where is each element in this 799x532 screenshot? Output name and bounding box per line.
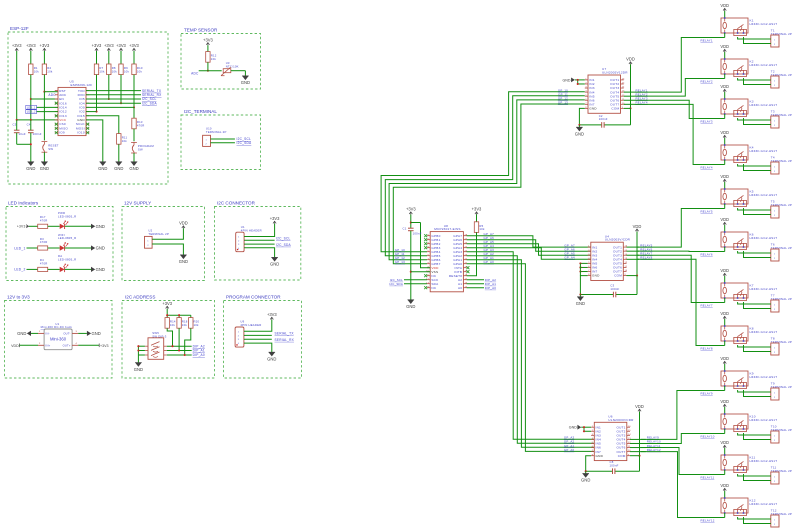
connector U2 TERMINAL 2P [145, 229, 170, 249]
svg-text:LED Indicators: LED Indicators [8, 201, 39, 206]
power +3V3 [162, 301, 172, 309]
svg-text:GND: GND [114, 166, 123, 171]
ground [40, 162, 49, 171]
power VDD K7 [720, 268, 729, 283]
svg-text:LED_2: LED_2 [27, 111, 36, 114]
power VDD K3 [720, 84, 729, 99]
wire GPB5 to U7 IN5 [385, 96, 585, 256]
svg-text:GND: GND [270, 262, 279, 267]
svg-text:HF46F-G/12-HS1T: HF46F-G/12-HS1T [750, 103, 778, 107]
svg-text:100nF: 100nF [413, 231, 422, 235]
svg-text:I2C_SCL: I2C_SCL [276, 237, 290, 241]
net GP_A0 [564, 448, 575, 452]
svg-text:VDD: VDD [720, 311, 729, 316]
thermistor U3 NTC/10K [221, 61, 239, 76]
svg-text:GND: GND [179, 259, 188, 264]
svg-text:GND: GND [134, 367, 143, 372]
svg-text:LED_2: LED_2 [14, 268, 25, 272]
wire [78, 332, 87, 334]
svg-text:COM: COM [611, 107, 619, 111]
svg-text:I2C_TERMINAL: I2C_TERMINAL [184, 109, 217, 114]
resistor R13 [132, 118, 145, 129]
relay K2 [721, 58, 777, 76]
wire SERIAL_TX [244, 332, 294, 336]
wire GPA0 to U6 IN7 [467, 264, 595, 452]
svg-text:2: 2 [39, 343, 41, 345]
svg-text:4PIN HEADER: 4PIN HEADER [240, 323, 261, 327]
svg-text:GP_A4: GP_A4 [564, 256, 575, 260]
wire [133, 153, 135, 162]
svg-text:100nF: 100nF [33, 132, 42, 136]
connector U9 4PIN HEADER [235, 320, 261, 348]
svg-text:1: 1 [39, 331, 41, 333]
svg-text:VDD: VDD [626, 57, 635, 62]
wire [133, 107, 135, 118]
svg-text:2: 2 [774, 481, 775, 483]
wire VCC rail [17, 51, 58, 120]
wire contacts K8 [738, 345, 771, 352]
wire coil K12 [724, 513, 726, 518]
svg-text:RELAY6: RELAY6 [701, 252, 713, 256]
capacitor C3 [610, 284, 619, 298]
svg-text:15: 15 [628, 430, 631, 432]
wire RELAY5 run [637, 209, 724, 248]
power VDD K6 [720, 217, 729, 232]
svg-text:12V to 3V3: 12V to 3V3 [7, 295, 30, 300]
net GP_13 [558, 101, 568, 105]
svg-text:4: 4 [76, 343, 78, 345]
svg-text:1: 1 [774, 210, 775, 212]
svg-text:HF46F-G/12-HS1T: HF46F-G/12-HS1T [750, 236, 778, 240]
svg-text:GND: GND [406, 304, 415, 309]
power +3V3 [472, 207, 482, 215]
connector T6 TERMINAL 2P [771, 243, 792, 261]
wire RELAY6 out [627, 250, 640, 252]
net RELAY11 [647, 444, 661, 448]
svg-text:2: 2 [774, 524, 775, 526]
no-connect marks [55, 102, 89, 134]
ground [267, 352, 276, 361]
svg-text:GND: GND [569, 426, 577, 430]
svg-text:1: 1 [774, 39, 775, 41]
svg-text:VDD: VDD [635, 404, 644, 409]
svg-text:GND: GND [92, 331, 101, 336]
connector T3 TERMINAL 2P [771, 110, 792, 128]
wire VDD-COM U6 [615, 412, 641, 472]
svg-text:GND: GND [96, 267, 105, 272]
svg-text:10k: 10k [194, 323, 200, 327]
svg-text:GP_13: GP_13 [395, 260, 405, 264]
module box 12V to 3V3 [5, 295, 113, 378]
wire contacts K10 [738, 433, 771, 440]
wire [31, 51, 45, 64]
wire [167, 328, 172, 346]
svg-text:PROGRAM CONNECTOR: PROGRAM CONNECTOR [226, 295, 281, 300]
wire contacts K3 [738, 118, 771, 125]
svg-text:LED-0805_R: LED-0805_R [58, 214, 76, 218]
node [137, 345, 139, 351]
wire SERIAL_RX [86, 93, 162, 97]
svg-text:GND: GND [241, 80, 250, 85]
resistor R10 [132, 64, 143, 75]
wire [152, 228, 183, 239]
svg-text:VDD: VDD [720, 130, 729, 135]
module box I2C ADDRESS [122, 295, 215, 378]
svg-text:1: 1 [774, 166, 775, 168]
wire coil K9 [724, 386, 726, 391]
svg-text:2: 2 [774, 85, 775, 87]
wire DIP_A2 [167, 344, 205, 348]
svg-text:1: 1 [774, 519, 775, 521]
wire [476, 215, 478, 222]
svg-text:+3V3: +3V3 [12, 43, 22, 48]
wire [185, 328, 191, 355]
connector T10 TERMINAL 2P [771, 425, 792, 443]
resistor R9 [119, 64, 130, 75]
svg-text:+3V3: +3V3 [116, 43, 126, 48]
svg-text:+3V3: +3V3 [129, 43, 139, 48]
svg-text:16: 16 [622, 79, 625, 81]
svg-text:GND: GND [98, 166, 107, 171]
wire RELAY12 run [641, 452, 725, 518]
svg-text:1: 1 [774, 347, 775, 349]
svg-text:HF46F-G/12-HS1T: HF46F-G/12-HS1T [750, 149, 778, 153]
svg-text:RELAY3: RELAY3 [701, 119, 713, 123]
node [207, 70, 209, 72]
wire RELAY4 out [624, 103, 635, 105]
power +3V3 [104, 43, 114, 51]
ground [241, 76, 250, 85]
svg-text:2: 2 [774, 309, 775, 311]
svg-text:RELAY8: RELAY8 [701, 346, 713, 350]
resistor R1 [29, 64, 40, 75]
net RELAY6 [701, 252, 713, 256]
wire coil K4 [724, 160, 726, 165]
relay K6 [721, 231, 777, 249]
net I2C_SDA [389, 282, 427, 286]
svg-text:11: 11 [625, 266, 628, 268]
svg-text:100nF: 100nF [599, 117, 608, 121]
net RELAY7 [640, 251, 652, 255]
net RELAY2 [636, 92, 648, 96]
svg-text:VDD: VDD [720, 399, 729, 404]
net LED_1 [26, 105, 58, 109]
module box PROGRAM CONNECTOR [224, 295, 302, 378]
net RELAY3 [636, 96, 648, 100]
svg-text:C4: C4 [27, 122, 31, 126]
svg-text:I2C_SDA: I2C_SDA [142, 101, 157, 105]
svg-text:I2C_SDA: I2C_SDA [276, 243, 291, 247]
svg-text:ULN2003V12DR: ULN2003V12DR [602, 71, 628, 75]
wire RELAY12 out [630, 451, 646, 453]
wire I2C_SCL [244, 237, 290, 241]
svg-text:TEMP SENSOR: TEMP SENSOR [184, 28, 218, 33]
svg-text:GP_13: GP_13 [558, 101, 568, 105]
svg-text:SERIAL_TX: SERIAL_TX [275, 332, 295, 336]
wire VDD-COM U7 [604, 64, 631, 125]
net RELAY1 [701, 38, 713, 42]
svg-text:VDD: VDD [720, 440, 729, 445]
net LED_2 [26, 110, 58, 114]
wire RELAY10 run [641, 434, 725, 444]
svg-text:VDD: VDD [720, 174, 729, 179]
svg-text:+3V3: +3V3 [40, 43, 50, 48]
net GP_10 [558, 88, 568, 92]
net GP_A7 [564, 243, 575, 247]
LED WIFI row [14, 233, 105, 251]
wire [199, 70, 222, 72]
wire [410, 215, 412, 229]
svg-text:HF46F-G/12-HS1T: HF46F-G/12-HS1T [750, 22, 778, 26]
svg-text:10k: 10k [170, 323, 176, 327]
wire RELAY1 run [635, 38, 725, 93]
net VDD [11, 344, 38, 348]
svg-text:HF46F-G/12-HS1T: HF46F-G/12-HS1T [750, 375, 778, 379]
wire DIP_A1 [167, 349, 205, 353]
svg-text:VDD: VDD [720, 483, 729, 488]
wire coil K2 [724, 74, 726, 79]
net ADC [48, 93, 56, 97]
svg-text:ADC: ADC [191, 72, 199, 76]
node IO5 junction [108, 98, 110, 100]
net RELAY11 [701, 475, 715, 479]
ground U7 [575, 127, 584, 136]
net GP_12 [395, 256, 405, 260]
module box TEMP SENSOR [181, 28, 261, 89]
svg-text:10k: 10k [479, 227, 485, 231]
power VDD U6 [635, 404, 644, 412]
net GP_11 [558, 92, 568, 96]
wire DIP_A2 [467, 278, 497, 282]
wire [43, 92, 45, 141]
wire GPA7 to U4 IN1 [467, 236, 591, 247]
svg-text:DIP_A0: DIP_A0 [485, 286, 496, 290]
power +3V3 [92, 43, 102, 51]
power +3V3 [116, 43, 126, 51]
svg-text:GND: GND [563, 78, 571, 82]
svg-text:2: 2 [774, 440, 775, 442]
capacitor C2 [599, 114, 608, 128]
wire RELAY7 out [627, 254, 640, 256]
svg-text:DIP_A0: DIP_A0 [193, 353, 205, 357]
svg-text:A0: A0 [458, 286, 462, 290]
svg-text:SERIAL_RX: SERIAL_RX [275, 338, 295, 342]
net RELAY7 [701, 303, 713, 307]
svg-text:VDD: VDD [179, 221, 188, 226]
svg-text:470R: 470R [137, 124, 145, 128]
svg-text:2: 2 [774, 352, 775, 354]
switch PROGRAM SW [131, 142, 154, 153]
wire coil K6 [724, 247, 726, 252]
svg-text:RELAY10: RELAY10 [701, 434, 715, 438]
wire [244, 320, 272, 332]
power VDD K1 [720, 3, 729, 18]
wire RELAY11 out [630, 447, 646, 449]
svg-text:TERMINAL 2P: TERMINAL 2P [206, 130, 227, 134]
svg-text:LED-0805_R: LED-0805_R [58, 258, 76, 262]
wire I2C_SDA [86, 101, 157, 105]
net RELAY8 [701, 346, 713, 350]
svg-text:2: 2 [774, 171, 775, 173]
node IO0 junction [133, 106, 135, 108]
power +3V3 [129, 43, 139, 51]
svg-text:VDD: VDD [720, 217, 729, 222]
svg-text:LED-0805_R: LED-0805_R [58, 236, 76, 240]
module box 12V SUPPLY [122, 201, 205, 281]
wire RELAY5 out [627, 246, 640, 248]
wire [207, 45, 209, 51]
power VDD K8 [720, 311, 729, 326]
svg-text:GND: GND [267, 356, 276, 361]
wire GPA6 to U4 IN2 [467, 240, 591, 252]
svg-text:100nF: 100nF [610, 287, 619, 291]
net I2C_SCL [390, 278, 427, 282]
connector T11 TERMINAL 2P [771, 466, 792, 484]
wire RELAY11 run [641, 448, 725, 475]
wire GND pin [86, 120, 103, 162]
ground [129, 162, 138, 171]
ground [87, 331, 101, 336]
wire VDD-COM U4 [616, 232, 638, 295]
svg-text:1: 1 [774, 120, 775, 122]
wire coil K5 [724, 204, 726, 209]
no-connect marks [424, 234, 469, 289]
wire [178, 328, 180, 350]
svg-text:100nF: 100nF [610, 464, 619, 468]
IC U7 ULN2003V12DR [585, 67, 628, 113]
wire DIP_A0 [467, 286, 497, 290]
svg-text:+3V3: +3V3 [472, 207, 482, 212]
net RELAY12 [701, 518, 715, 522]
node IO2 junction [95, 111, 97, 113]
svg-text:C5: C5 [13, 122, 17, 126]
ground tie unused inputs [569, 425, 591, 433]
svg-text:COM: COM [614, 274, 622, 278]
svg-text:1: 1 [774, 392, 775, 394]
wire RELAY8 run [637, 259, 724, 345]
svg-text:C1: C1 [403, 226, 407, 230]
resistor R5 [474, 222, 485, 233]
svg-text:RELAY9: RELAY9 [701, 391, 713, 395]
wire GPA2 to U6 IN5 [467, 256, 595, 444]
net GP_A6 [564, 247, 575, 251]
connector T5 TERMINAL 2P [771, 200, 792, 218]
power +3V3 [270, 216, 280, 224]
svg-text:DIP_A1: DIP_A1 [193, 349, 205, 353]
svg-text:I2C ADDRESS: I2C ADDRESS [125, 295, 155, 300]
net RELAY8 [640, 256, 652, 260]
wire I2C_SDA [211, 141, 252, 145]
net GP_A7 [484, 232, 495, 236]
net +3V3 out [78, 344, 108, 348]
relay K12 [721, 497, 777, 515]
wire VDD feed [411, 223, 430, 268]
connector U10 TERMINAL 2P [203, 127, 227, 147]
wire GND U7 [578, 108, 601, 127]
svg-text:+3V3: +3V3 [17, 225, 26, 229]
wire contacts K5 [738, 208, 771, 215]
svg-text:VDD: VDD [720, 84, 729, 89]
svg-text:16: 16 [628, 426, 631, 428]
net RELAY3 [701, 119, 713, 123]
net RELAY6 [640, 247, 652, 251]
svg-text:10k: 10k [211, 57, 217, 61]
wire [118, 144, 120, 162]
svg-text:HF46F-G/12-HS1T: HF46F-G/12-HS1T [750, 63, 778, 67]
ground [179, 255, 188, 264]
wire RST [44, 91, 58, 93]
net RELAY1 [636, 88, 648, 92]
net RELAY5 [701, 209, 713, 213]
power VDD K11 [720, 440, 729, 455]
svg-text:GND: GND [589, 107, 597, 111]
resistor R12 [206, 52, 217, 63]
svg-text:HF46F-G/12-HS1T: HF46F-G/12-HS1T [750, 502, 778, 506]
svg-text:GND: GND [17, 331, 26, 336]
net GP_13 [395, 260, 405, 264]
net RELAY9 [647, 436, 659, 440]
svg-text:14: 14 [628, 434, 631, 436]
svg-text:10k: 10k [34, 69, 40, 73]
svg-text:12: 12 [625, 262, 628, 264]
wire RELAY4 run [635, 104, 725, 164]
svg-text:14: 14 [622, 87, 625, 89]
svg-text:I2C_SDA: I2C_SDA [237, 141, 252, 145]
power VDD K10 [720, 399, 729, 414]
svg-text:10k: 10k [112, 69, 118, 73]
ground tie unused inputs [563, 78, 585, 86]
svg-text:10k: 10k [47, 69, 53, 73]
svg-text:LED_1: LED_1 [27, 106, 36, 109]
capacitor C5 [13, 120, 26, 144]
svg-text:+3V3: +3V3 [406, 207, 416, 212]
net GP_A6 [484, 236, 495, 240]
svg-text:I2C_SDA: I2C_SDA [389, 282, 403, 286]
capacitor C4 [27, 120, 42, 144]
svg-text:2: 2 [774, 397, 775, 399]
svg-text:GND: GND [581, 478, 590, 483]
svg-text:10: 10 [625, 270, 628, 272]
net RELAY12 [647, 448, 661, 452]
resistor R11 [117, 134, 128, 145]
wire contacts K7 [738, 302, 771, 309]
svg-text:ULN2003V/CDR: ULN2003V/CDR [608, 418, 634, 422]
svg-text:ADC: ADC [48, 93, 56, 97]
svg-text:10uF: 10uF [19, 132, 26, 136]
svg-text:HF46F-G/12-HS1T: HF46F-G/12-HS1T [750, 459, 778, 463]
resistor R14 [165, 318, 176, 329]
svg-text:VDD: VDD [633, 224, 642, 229]
net ADC [191, 72, 199, 76]
regulator U1 Mini-360 [38, 322, 78, 350]
net RELAY2 [701, 79, 713, 83]
ground [98, 162, 107, 171]
svg-text:RELAY12: RELAY12 [701, 518, 715, 522]
net GP_A5 [484, 240, 495, 244]
resistor R8 [107, 64, 118, 75]
svg-text:GND: GND [96, 246, 105, 251]
net GP_12 [558, 96, 568, 100]
relay K1 [721, 17, 777, 35]
svg-text:10k: 10k [137, 69, 143, 73]
svg-text:HF46F-G/12-HS1T: HF46F-G/12-HS1T [750, 418, 778, 422]
relay K8 [721, 325, 777, 343]
IC U5 ESP8266-12F [55, 80, 93, 136]
relay K9 [721, 370, 777, 388]
power VDD K9 [720, 356, 729, 371]
svg-text:SW: SW [48, 147, 53, 151]
svg-text:GND: GND [40, 166, 49, 171]
